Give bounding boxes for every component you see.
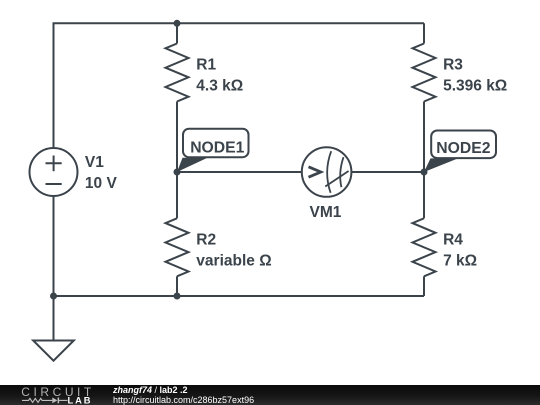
node NODE2 junction xyxy=(421,169,428,176)
wire R1 bottom lead xyxy=(176,102,178,173)
svg-text:V1: V1 xyxy=(85,154,104,171)
wire R4 bottom lead xyxy=(423,276,425,296)
footer text xyxy=(113,385,188,395)
wire node1 to VM1 xyxy=(177,171,302,173)
svg-text:VM1: VM1 xyxy=(310,204,342,221)
node NODE2 callout box xyxy=(431,131,496,159)
svg-text:R1: R1 xyxy=(196,57,216,74)
resistor R3 xyxy=(413,44,436,102)
wire R4 top lead xyxy=(423,172,425,218)
svg-text:R3: R3 xyxy=(443,57,463,74)
voltage source V1 xyxy=(30,148,78,196)
node junction bottom mid xyxy=(174,293,181,300)
wire top rail xyxy=(54,23,425,148)
ground xyxy=(53,296,55,341)
node NODE1 callout box xyxy=(183,129,249,158)
svg-text:R4: R4 xyxy=(443,232,463,249)
wire bottom rail xyxy=(54,196,425,296)
footer circuitlab logo xyxy=(0,385,110,405)
resistor R4 xyxy=(413,218,436,276)
wire R2 bottom lead xyxy=(176,276,178,296)
wire R2 top lead xyxy=(176,172,178,218)
node junction top xyxy=(174,20,181,27)
svg-text:NODE2: NODE2 xyxy=(436,140,490,157)
svg-text:5.396 kΩ: 5.396 kΩ xyxy=(443,77,507,94)
wire right branch top lead R3 xyxy=(423,23,425,43)
wire middle branch top lead R1 xyxy=(176,23,178,43)
resistor R1 xyxy=(166,44,189,102)
svg-text:R2: R2 xyxy=(196,232,216,249)
node NODE1 junction xyxy=(174,169,181,176)
footer bar xyxy=(0,385,540,405)
svg-text:7 kΩ: 7 kΩ xyxy=(443,252,477,269)
svg-text:4.3 kΩ: 4.3 kΩ xyxy=(196,77,243,94)
svg-text:LAB: LAB xyxy=(68,396,93,405)
node NODE1 callout tail xyxy=(177,158,208,172)
node junction bottom left xyxy=(50,293,57,300)
svg-text:10 V: 10 V xyxy=(85,175,118,192)
svg-text:NODE1: NODE1 xyxy=(190,139,244,156)
wire VM1 to node2 xyxy=(352,171,425,173)
wire R3 bottom lead xyxy=(423,102,425,173)
resistor R2 xyxy=(166,218,189,276)
svg-text:variable Ω: variable Ω xyxy=(196,252,271,269)
voltmeter VM1 xyxy=(302,147,352,197)
node NODE2 callout tail xyxy=(424,158,458,172)
